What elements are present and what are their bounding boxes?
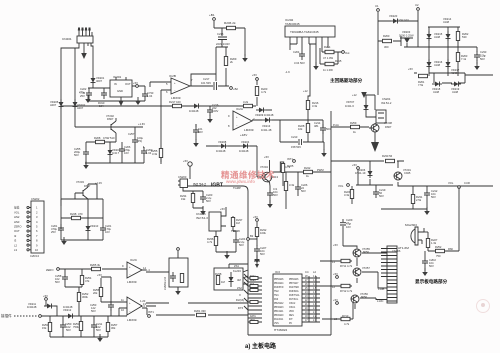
svg-text:50V: 50V — [429, 264, 434, 268]
wire: top right U2 drop — [417, 11, 419, 47]
svg-text:TM2: TM2 — [274, 291, 279, 293]
diode VD218 — [432, 82, 442, 87]
svg-text:50V: 50V — [239, 243, 244, 247]
IC202 grounds — [313, 62, 319, 70]
svg-text:25V: 25V — [51, 230, 56, 234]
ground C255 — [83, 161, 89, 169]
R229 bottom link — [351, 198, 353, 204]
svg-text:IGBT: IGBT — [211, 183, 223, 189]
op-amp IC2D — [127, 297, 142, 315]
resistor R222 — [244, 104, 253, 107]
BIG-COMPONENTS — [14, 18, 424, 332]
svg-text:CN204: CN204 — [382, 97, 391, 101]
svg-text:U2: U2 — [415, 3, 419, 7]
crystal box ZS — [214, 268, 243, 290]
Out node — [342, 51, 345, 54]
svg-text:A007: A007 — [77, 106, 84, 110]
svg-text:0.5W 510: 0.5W 510 — [103, 136, 115, 140]
zener VD206 — [368, 168, 373, 178]
IC3 HT46R22 — [273, 274, 302, 326]
svg-text:50V: 50V — [206, 199, 211, 203]
labels on IC left wires — [236, 276, 256, 322]
connector CN202 — [31, 201, 44, 253]
svg-text:PA5/TSCL: PA5/TSCL — [289, 294, 300, 297]
svg-text:A007: A007 — [50, 103, 57, 107]
svg-text:158 50V: 158 50V — [291, 145, 301, 149]
bridge diodes — [427, 31, 432, 41]
svg-text:30k: 30k — [111, 326, 116, 330]
R 3.3k vert — [284, 182, 287, 191]
svg-text:16V: 16V — [124, 151, 129, 155]
capacitor C222 — [86, 89, 92, 99]
svg-text:R713: R713 — [342, 314, 349, 318]
zener VD210 — [86, 223, 91, 233]
svg-text:50V: 50V — [66, 328, 71, 332]
+B2 node — [230, 87, 233, 90]
svg-text:L1: L1 — [332, 260, 335, 264]
wire: U1 to bridge diode — [378, 20, 418, 22]
svg-text:D667: D667 — [107, 117, 114, 121]
svg-text:1.3k: 1.3k — [431, 241, 437, 245]
svg-text:P.AA: P.AA — [333, 123, 339, 127]
svg-text:C2N53.2-6: C2N53.2-6 — [163, 276, 167, 290]
svg-text:X: X — [239, 293, 241, 297]
svg-text:D667: D667 — [84, 184, 91, 188]
extra center cluster — [280, 101, 331, 187]
svg-text:C215: C215 — [217, 32, 224, 36]
IC301 regulator U-box — [110, 80, 132, 97]
resistor R259 — [351, 125, 360, 128]
wire: right mid rails — [331, 127, 404, 161]
svg-text:8050: 8050 — [361, 295, 367, 299]
diode VD202 — [73, 99, 78, 109]
svg-text:750k: 750k — [73, 325, 79, 329]
svg-text:R248: R248 — [70, 212, 77, 216]
resistor R230 — [386, 159, 395, 162]
svg-text:4.7k: 4.7k — [207, 240, 213, 244]
svg-text:481: 481 — [314, 124, 319, 128]
ground VT203 rail — [61, 237, 67, 245]
wire: crystal area — [146, 264, 248, 306]
svg-text:INT: INT — [289, 319, 293, 321]
svg-text:PB4/AN4: PB4/AN4 — [274, 282, 284, 285]
svg-text:VD209 1N4148: VD209 1N4148 — [255, 113, 274, 117]
wire: bridge top rail — [428, 26, 460, 28]
svg-text:VT257: VT257 — [362, 266, 370, 270]
resistor R237 — [231, 218, 234, 227]
svg-text:+B2: +B2 — [233, 87, 238, 91]
resistor R257 — [106, 323, 109, 332]
svg-text:1N41-6: 1N41-6 — [345, 104, 354, 108]
svg-text:C257: C257 — [128, 132, 135, 136]
svg-text:CN203: CN203 — [178, 175, 187, 179]
ground VT208 — [371, 142, 379, 152]
svg-text:1N41-19: 1N41-19 — [355, 171, 366, 175]
capacitor C216 — [207, 106, 213, 116]
resistor R713 — [341, 317, 350, 320]
svg-text:PA0: PA0 — [274, 298, 279, 301]
diode VD201 — [91, 75, 96, 85]
wire: VD207 branch — [364, 95, 376, 117]
capacitor C202 — [142, 90, 148, 100]
svg-text:DATA: DATA — [250, 315, 256, 318]
svg-text:L3: L3 — [334, 317, 337, 321]
svg-text:4.7k: 4.7k — [347, 264, 353, 268]
wire: R261 diode rail — [414, 73, 493, 83]
svg-text:CUR: CUR — [464, 181, 470, 185]
capacitor C233 — [474, 51, 480, 61]
svg-text:IN2.54-3: IN2.54-3 — [196, 216, 208, 220]
svg-text:C4: C4 — [305, 270, 309, 274]
svg-text:+5V: +5V — [220, 207, 225, 211]
resistor R265 — [92, 267, 101, 270]
wire: C233 branch — [476, 47, 478, 64]
svg-text:OUT: OUT — [14, 229, 20, 233]
svg-text:1N4148: 1N4148 — [216, 149, 226, 153]
svg-text:VD204: VD204 — [241, 140, 250, 144]
svg-text:+B1: +B1 — [209, 13, 215, 17]
wire: top op-amp rail — [61, 105, 243, 107]
svg-text:VOL: VOL — [338, 184, 344, 188]
diode VD213b — [262, 118, 272, 123]
wire: IC2B output to +B2 — [190, 74, 229, 86]
ground C250b — [422, 268, 428, 276]
svg-text:25V: 25V — [80, 94, 85, 98]
op-amp IC2B — [171, 78, 190, 94]
grounds buzzer top — [424, 207, 430, 215]
resistor R214 — [325, 50, 334, 53]
resistor R217 — [173, 104, 182, 107]
svg-text:1.4: 1.4 — [146, 268, 150, 272]
ground C222 — [85, 95, 91, 103]
ground under C213 rail — [321, 149, 327, 157]
capacitor C215 — [216, 32, 230, 46]
resistor R256 — [99, 288, 102, 297]
ground below CN201 — [83, 43, 85, 53]
svg-text:4148: 4148 — [434, 35, 440, 39]
resistor R242 — [304, 170, 313, 173]
svg-text:4148: 4148 — [452, 90, 458, 94]
resistor R215 — [325, 62, 334, 65]
svg-text:IC2A: IC2A — [236, 107, 244, 111]
svg-text:ZS1: ZS1 — [234, 264, 239, 268]
IC202 C204 — [299, 50, 305, 60]
svg-text:PB3/AN3: PB3/AN3 — [274, 306, 284, 309]
svg-text:IC301: IC301 — [113, 75, 122, 79]
svg-text:C217: C217 — [203, 77, 210, 81]
svg-text:IC3: IC3 — [275, 270, 280, 274]
svg-text:C232 103: C232 103 — [397, 18, 409, 22]
resistor R253 — [48, 323, 51, 332]
resistor R262 — [456, 32, 459, 41]
svg-text:INT6: INT6 — [238, 308, 244, 310]
svg-text:INT1: INT1 — [287, 157, 293, 161]
svg-text:750: 750 — [436, 254, 441, 258]
resistor R236 — [214, 237, 217, 246]
resistor R263 — [456, 53, 459, 62]
svg-text:KL203: KL203 — [233, 269, 241, 273]
svg-text:2.2μ: 2.2μ — [480, 54, 486, 58]
VT204 top — [260, 165, 278, 186]
svg-text:TGMP: TGMP — [233, 186, 241, 190]
diode VD205 — [59, 99, 64, 109]
svg-text:101 50V: 101 50V — [201, 81, 211, 85]
transistor VT201 — [394, 172, 402, 180]
C226 cap — [295, 183, 301, 193]
svg-text:R265 3k: R265 3k — [90, 263, 101, 267]
svg-text:主回路驱动部分: 主回路驱动部分 — [330, 77, 363, 84]
svg-text:a) 主板电路: a) 主板电路 — [245, 342, 277, 350]
svg-text:47μ: 47μ — [346, 222, 351, 226]
svg-text:100V: 100V — [212, 109, 218, 113]
capacitor C206 — [119, 145, 125, 155]
svg-text:3.3k: 3.3k — [152, 152, 158, 156]
svg-text:+12: +12 — [352, 93, 357, 97]
wire: buzzer feed vertical — [458, 188, 460, 251]
svg-text:C2N3.0: C2N3.0 — [30, 254, 40, 258]
svg-text:VSS: VSS — [274, 323, 279, 325]
svg-text:HN2: HN2 — [14, 215, 20, 219]
svg-text:PA6/SDA: PA6/SDA — [289, 290, 299, 293]
svg-text:R238: R238 — [215, 272, 222, 276]
resistor R208 — [96, 140, 105, 143]
svg-text:VT204: VT204 — [260, 165, 268, 169]
capacitor C201 — [58, 224, 64, 234]
svg-text:50V: 50V — [301, 189, 306, 193]
wire: bottom input rail — [41, 315, 127, 317]
IC202 box — [285, 26, 335, 37]
resistor R216 — [306, 101, 309, 110]
svg-text:50V: 50V — [379, 194, 384, 198]
svg-text:C204: C204 — [293, 50, 300, 54]
resistor R206 — [227, 26, 236, 29]
wire: IC3 right stubs — [302, 276, 320, 322]
wire: regulator bottom rail — [85, 162, 144, 164]
connector CN204 — [376, 110, 386, 123]
svg-text:50V: 50V — [74, 153, 79, 157]
svg-text:47 1.0W: 47 1.0W — [323, 56, 333, 60]
faint stamp watermark — [477, 300, 490, 313]
svg-text:PB6/AN6: PB6/AN6 — [289, 278, 299, 281]
svg-text:15k: 15k — [42, 326, 47, 330]
svg-text:VT208: VT208 — [384, 121, 392, 125]
capacitor C258 — [62, 273, 68, 283]
resistor R261 — [419, 74, 428, 77]
svg-text:1N4148: 1N4148 — [239, 149, 249, 153]
capacitor C250b — [422, 257, 428, 267]
svg-text:VD707: VD707 — [346, 100, 355, 104]
svg-text:VD210: VD210 — [90, 224, 99, 228]
svg-text:TD940BA TA81C645: TD940BA TA81C645 — [290, 30, 319, 34]
svg-text:IN2.54-2: IN2.54-2 — [381, 101, 392, 105]
svg-text:50V: 50V — [198, 130, 203, 134]
svg-text:L2: L2 — [313, 270, 316, 274]
svg-text:ZS2: ZS2 — [237, 286, 242, 290]
svg-text:L13C: L13C — [377, 299, 383, 303]
svg-text:Read: Read — [250, 280, 256, 282]
svg-text:IC2C: IC2C — [130, 258, 138, 262]
svg-text:50V: 50V — [91, 309, 96, 313]
wire: center big vertical 1 — [330, 111, 332, 335]
svg-text:L3: L3 — [14, 248, 17, 252]
ground right of IC301 — [135, 97, 141, 105]
svg-text:+18V: +18V — [240, 133, 248, 137]
svg-text:+5V: +5V — [252, 73, 257, 77]
svg-text:R259: R259 — [350, 121, 357, 125]
capacitor C214 — [320, 124, 326, 134]
svg-text:1N41-48: 1N41-48 — [261, 128, 272, 132]
svg-text:2.5k: 2.5k — [416, 198, 422, 202]
input node bottom — [39, 315, 42, 318]
svg-text:Out: Out — [345, 51, 350, 55]
svg-text:PA3/PFD: PA3/PFD — [274, 286, 284, 289]
svg-text:4.7k: 4.7k — [261, 90, 267, 94]
wire: +B1 drop — [214, 21, 245, 86]
svg-text:R225: R225 — [287, 164, 294, 168]
svg-text:B2: B2 — [250, 234, 254, 238]
resistor R223 — [255, 87, 258, 96]
diode VD209 — [256, 108, 266, 113]
svg-text:IC2B: IC2B — [169, 74, 176, 78]
svg-text:R712: R712 — [340, 289, 347, 293]
wire: left pin bus entering IC3 — [244, 274, 262, 322]
zener VD203 — [108, 147, 113, 157]
wire: IGBT rail — [188, 186, 249, 191]
svg-text:R260: R260 — [383, 34, 390, 38]
diode VD204 — [240, 144, 250, 149]
connector CN205 — [209, 212, 221, 231]
wire: regulator mid rail — [75, 126, 143, 128]
wire: VOL node drops — [352, 182, 415, 190]
ground R236 — [224, 251, 230, 259]
resistor R251 — [79, 322, 82, 331]
wire: center big vertical 2 — [248, 191, 331, 335]
svg-text:R206 2k: R206 2k — [224, 21, 236, 25]
svg-text:19k: 19k — [181, 197, 186, 201]
svg-text:VD220: VD220 — [389, 14, 398, 18]
capacitor C217 — [201, 77, 217, 90]
svg-text:TM1: TM1 — [274, 295, 279, 297]
wire: VT203 rail — [61, 198, 103, 200]
svg-text:L2: L2 — [332, 285, 335, 289]
svg-text:50V: 50V — [273, 193, 278, 197]
U2 node — [417, 8, 420, 11]
wire: VOL CUR long rail — [415, 185, 493, 187]
ground R206 — [242, 54, 248, 62]
transistor VT256 — [351, 295, 359, 303]
svg-text:R215: R215 — [335, 59, 342, 63]
transistor VT208 — [371, 124, 379, 132]
svg-text:10: 10 — [35, 248, 38, 252]
R234 C223 under CN203 — [191, 194, 194, 203]
svg-text:D667: D667 — [385, 125, 392, 129]
wire: VD206 VT201 — [356, 161, 398, 185]
svg-text:300: 300 — [384, 45, 389, 49]
capacitor C209 — [101, 89, 107, 99]
resistor R711 — [341, 259, 350, 262]
wire: VT208 branch — [369, 128, 375, 142]
svg-text:4.7k: 4.7k — [347, 289, 353, 293]
svg-text:IN2.54-2: IN2.54-2 — [193, 183, 206, 187]
svg-text:4148: 4148 — [443, 20, 449, 24]
wire: bridge box — [404, 27, 477, 76]
svg-text:R242: R242 — [304, 166, 311, 170]
svg-text:+5V: +5V — [352, 163, 357, 167]
C71 cap — [267, 189, 273, 199]
svg-text:www.jdwx.info: www.jdwx.info — [225, 179, 255, 184]
svg-text:R201 330: R201 330 — [194, 309, 206, 313]
svg-text:50V: 50V — [55, 280, 60, 284]
svg-text:PB1/AN1: PB1/AN1 — [274, 310, 284, 313]
svg-text:300k: 300k — [82, 295, 88, 299]
transistor VT202 — [106, 114, 116, 137]
svg-text:PB2/AN2: PB2/AN2 — [274, 302, 284, 305]
svg-text:4148: 4148 — [434, 63, 440, 67]
svg-text:50V: 50V — [96, 328, 101, 332]
diode VD208 — [218, 144, 228, 149]
resistor R232v — [255, 228, 258, 237]
capacitor C227 — [254, 245, 260, 255]
wire: IC301 top rail — [88, 85, 110, 88]
transistor VT257 — [353, 268, 361, 276]
svg-text:C213: C213 — [291, 135, 298, 139]
resistor R750 — [436, 249, 445, 252]
connector CN201 — [77, 36, 93, 43]
resistor R229 — [350, 190, 353, 199]
svg-text:+5V: +5V — [264, 155, 269, 159]
svg-text:C222: C222 — [80, 87, 87, 91]
capacitor C213 — [291, 135, 302, 149]
svg-text:1N4148: 1N4148 — [63, 305, 73, 309]
svg-text:10: 10 — [121, 308, 124, 312]
wire: U1 vertical — [377, 12, 379, 95]
svg-text:3.04 50V: 3.04 50V — [294, 61, 305, 65]
svg-text:L2: L2 — [14, 243, 17, 247]
op-amp IC2C — [127, 262, 142, 278]
resistor R248 — [72, 216, 81, 219]
svg-text:LM339: LM339 — [127, 280, 137, 284]
svg-text:OSC1: OSC1 — [289, 307, 296, 309]
resistor R252 — [77, 293, 80, 302]
svg-text:1.04: 1.04 — [147, 94, 153, 98]
diode VD212 — [65, 314, 75, 319]
svg-text:+5V: +5V — [97, 273, 102, 277]
resistor R238 in crystal box — [216, 276, 219, 285]
wire: R260 branch — [378, 36, 401, 46]
capacitor C255 — [83, 148, 89, 158]
svg-text:530: 530 — [462, 35, 467, 39]
svg-text:+5V: +5V — [333, 243, 338, 247]
capacitor C229 — [340, 218, 353, 246]
svg-text:R217 100: R217 100 — [169, 100, 181, 104]
svg-text:10k: 10k — [298, 127, 303, 131]
svg-text:1N4.7: 1N4.7 — [112, 151, 120, 155]
svg-text:20k: 20k — [93, 291, 98, 295]
svg-text:1N4148: 1N4148 — [189, 109, 199, 113]
ground C216 — [207, 115, 213, 123]
U1 node — [377, 9, 380, 12]
buzzer MG2303 — [398, 223, 424, 250]
svg-text:L10B: L10B — [378, 287, 384, 291]
IC3 right pin number ladder — [305, 276, 317, 322]
svg-text:IN: IN — [114, 82, 117, 86]
svg-text:LM339: LM339 — [244, 128, 254, 132]
ZERO node — [57, 268, 60, 271]
VOL node left — [347, 184, 350, 187]
svg-text:OUT: OUT — [125, 82, 131, 86]
resistor R712 — [341, 284, 350, 287]
svg-text:R252: R252 — [435, 245, 442, 249]
